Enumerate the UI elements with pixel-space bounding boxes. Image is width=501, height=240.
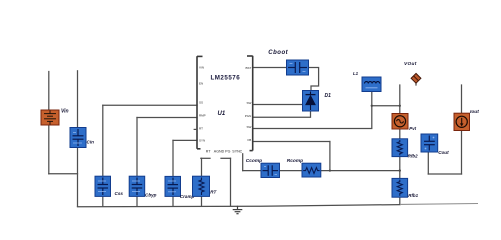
wire Rfb2 to Rfb1	[399, 157, 401, 179]
wire RT stub	[201, 157, 210, 159]
voltage source Vin	[41, 110, 59, 125]
svg-text:RT: RT	[206, 149, 212, 153]
svg-text:SW: SW	[246, 101, 251, 105]
svg-text:RT: RT	[199, 127, 203, 131]
wire Css vertical	[102, 105, 104, 176]
wire ground rail	[78, 205, 401, 207]
wire Cramp vertical	[172, 140, 174, 176]
svg-text:VIN: VIN	[199, 66, 204, 70]
wire AGND stub	[221, 157, 231, 159]
capacitor Cout	[421, 134, 438, 152]
inductor L1	[362, 77, 381, 92]
resistor Rfb2	[392, 139, 408, 157]
pin labels left	[199, 66, 206, 143]
svg-text:Vin: Vin	[61, 109, 69, 115]
svg-text:Cbyp: Cbyp	[145, 192, 157, 197]
svg-text:Rfb2: Rfb2	[408, 153, 418, 158]
wire Pvt to Rfb2	[399, 129, 401, 139]
wire Rfb1 to rail	[399, 197, 401, 204]
svg-text:SW: SW	[246, 125, 251, 129]
wire Vout diamond stub	[415, 83, 417, 86]
svg-text:Ccomp: Ccomp	[246, 158, 262, 164]
current source Iout	[454, 113, 470, 130]
svg-text:RMP: RMP	[199, 114, 206, 118]
wire Iout bottom	[461, 131, 463, 175]
wire Cbyp vertical	[136, 118, 138, 177]
pin labels right	[245, 66, 252, 142]
svg-text:SS: SS	[199, 101, 203, 105]
pin stub RT side	[194, 128, 197, 130]
svg-text:Css: Css	[115, 191, 124, 196]
ac source Pvt	[392, 114, 408, 130]
svg-text:Rfb1: Rfb1	[408, 193, 418, 198]
wire FB horizontal	[253, 141, 330, 143]
wire Iout top stub	[461, 85, 463, 113]
ground	[233, 206, 243, 214]
svg-text:Pvt: Pvt	[409, 126, 416, 131]
svg-text:AGND PG: AGND PG	[214, 149, 231, 153]
wire FB vertical drop	[329, 142, 331, 171]
wire Rcomp to FB node	[321, 170, 400, 172]
wire pin SS horizontal	[137, 117, 197, 119]
wire Cout bottom	[427, 152, 429, 174]
wire SW to diode	[253, 104, 303, 106]
svg-text:U1: U1	[218, 111, 226, 117]
wire pin RAMP horizontal	[173, 139, 197, 141]
svg-text:Rcomp: Rcomp	[287, 158, 303, 164]
wire Vin top	[48, 72, 50, 111]
node VOut diamond	[411, 73, 421, 83]
capacitor Ccomp	[261, 163, 280, 177]
wire Vin to Cin bottom link	[49, 173, 78, 175]
wire COMP drop	[242, 154, 244, 171]
svg-text:BST: BST	[245, 66, 251, 70]
svg-text:Cin: Cin	[87, 140, 95, 145]
capacitor Cbyp	[129, 176, 145, 196]
wire Cin bottom	[77, 148, 79, 207]
capacitor Cin	[70, 128, 86, 148]
svg-text:FB: FB	[247, 138, 251, 142]
svg-text:SYNC: SYNC	[232, 149, 242, 153]
wire ground rail faint right part	[400, 203, 478, 206]
IC U1 LM25576 body	[197, 56, 253, 151]
wire BST to Cboot	[253, 67, 287, 69]
wire RT vertical	[201, 158, 203, 176]
svg-text:Iout: Iout	[470, 109, 479, 115]
svg-text:Cout: Cout	[438, 150, 449, 155]
wire Vout vertical	[399, 85, 401, 114]
svg-text:SYN: SYN	[199, 139, 205, 143]
capacitor Cboot	[287, 60, 309, 75]
svg-text:L1: L1	[353, 71, 359, 76]
wire SW to L1	[253, 92, 372, 129]
junction dots	[329, 105, 401, 172]
wire Cin top	[77, 71, 79, 128]
resistor Rfb1	[392, 178, 408, 197]
svg-text:PGN: PGN	[245, 114, 252, 118]
resistor Rcomp	[302, 163, 321, 177]
svg-text:LM25576: LM25576	[211, 74, 241, 81]
wire pin VIN horizontal	[103, 104, 197, 106]
pin labels bottom row	[206, 149, 243, 153]
svg-text:D1: D1	[325, 93, 332, 99]
capacitor Css	[95, 176, 111, 196]
diode D1	[303, 91, 319, 112]
svg-text:VOut: VOut	[404, 61, 417, 67]
wire AGND vertical	[230, 158, 232, 206]
svg-text:Cboot: Cboot	[268, 50, 288, 56]
wire diode bottom return	[253, 111, 311, 117]
wire Cboot right to SW node	[309, 68, 319, 91]
svg-text:EN: EN	[199, 81, 203, 85]
wire Vin bottom	[48, 125, 50, 174]
resistor RT	[193, 176, 210, 196]
capacitor Cramp	[165, 176, 181, 196]
wire L1 to Vout node	[372, 105, 400, 107]
wire Ccomp to Rcomp	[280, 170, 303, 172]
wire Cout to Iout link	[428, 173, 461, 175]
